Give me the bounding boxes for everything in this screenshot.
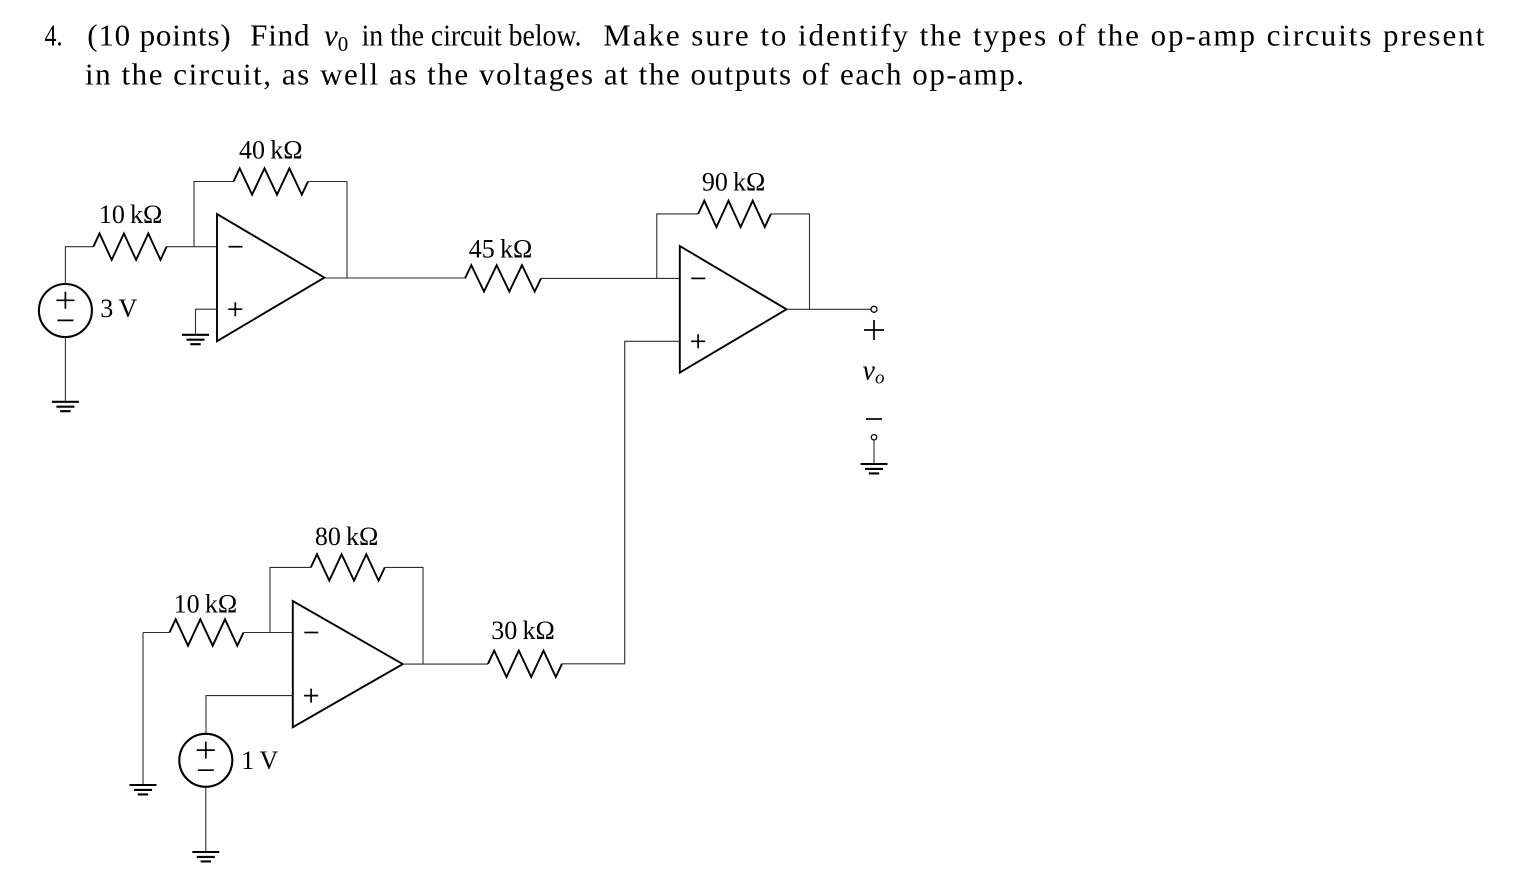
- wire node B up to R4: [657, 214, 698, 279]
- wire R1 to U1 inverting input: [167, 246, 217, 248]
- wire left leg down to ground: [142, 633, 144, 786]
- wire R5 to U3 inverting input: [244, 632, 293, 634]
- wire V1 top to R1: [65, 247, 93, 284]
- svg-text:90 kΩ: 90 kΩ: [702, 167, 766, 196]
- wire node A up to R2: [194, 182, 234, 247]
- svg-text:3 V: 3 V: [100, 294, 137, 323]
- svg-text:30 kΩ: 30 kΩ: [491, 616, 555, 645]
- wire V2 bottom to ground: [205, 787, 207, 852]
- op-amp U1: [217, 214, 324, 341]
- resistor R7 30k: [488, 651, 562, 677]
- plus sign at output: [864, 320, 884, 340]
- svg-text:in the circuit, as well as the: in the circuit, as well as the voltages …: [85, 57, 1024, 92]
- wire V1 bottom to ground: [64, 337, 66, 402]
- wire U2 output to terminal: [787, 308, 872, 310]
- wire U1 noninverting input to ground: [196, 309, 218, 335]
- wire R7 up to U2 noninverting input: [562, 341, 680, 664]
- svg-text:Make sure to identify the type: Make sure to identify the types of the o…: [603, 18, 1484, 53]
- svg-text:v0: v0: [324, 18, 348, 57]
- svg-text:80 kΩ: 80 kΩ: [315, 522, 379, 551]
- ground bottom left: [130, 785, 157, 794]
- svg-text:(10 points): (10 points): [87, 18, 231, 53]
- U3 plus sign: [304, 689, 318, 703]
- voltage source V1 3V: [39, 284, 92, 337]
- output terminal upper: [871, 306, 877, 312]
- svg-text:10 kΩ: 10 kΩ: [99, 200, 163, 229]
- U1 minus sign: [229, 246, 243, 248]
- wire left leg to R5: [143, 632, 170, 634]
- problem statement line 1: [45, 18, 1485, 57]
- wire U3 output to R7: [403, 663, 488, 665]
- svg-text:Find: Find: [250, 18, 310, 53]
- wire R6 to U3 output: [385, 567, 423, 664]
- minus sign at output: [866, 418, 882, 420]
- U1 plus sign: [228, 302, 242, 316]
- ground at U1 + input: [182, 335, 209, 344]
- U2 plus sign: [691, 334, 705, 348]
- wire lower terminal to ground: [873, 440, 875, 464]
- svg-text:40 kΩ: 40 kΩ: [239, 135, 303, 164]
- op-amp U2: [680, 246, 787, 373]
- wire U3 noninverting input to V2: [206, 696, 293, 734]
- svg-text:45 kΩ: 45 kΩ: [469, 235, 533, 264]
- resistor R3 45k: [465, 265, 541, 291]
- svg-text:vo: vo: [863, 356, 885, 389]
- svg-text:4.: 4.: [45, 18, 63, 53]
- ground below V2: [192, 852, 219, 861]
- voltage source V2 1V: [179, 734, 232, 787]
- wire R2 to U1 output: [308, 182, 347, 279]
- U3 minus sign: [304, 632, 318, 634]
- resistor R5 10k: [170, 619, 244, 645]
- svg-text:1 V: 1 V: [241, 746, 278, 775]
- ground at output: [861, 464, 888, 473]
- svg-text:in the circuit below.: in the circuit below.: [362, 18, 582, 53]
- svg-text:10 kΩ: 10 kΩ: [174, 589, 238, 618]
- resistor R4 90k feedback: [698, 201, 771, 227]
- wire node C up to R6: [270, 567, 311, 632]
- wire R3 to U2 inverting input: [541, 277, 680, 279]
- resistor R1 10k: [93, 234, 166, 260]
- wire U1 output to R3: [324, 277, 465, 279]
- wire R4 to U2 output: [771, 214, 810, 309]
- op-amp U3: [293, 601, 403, 727]
- ground below V1: [52, 402, 79, 411]
- resistor R6 80k feedback: [311, 554, 385, 580]
- resistor R2 40k feedback: [234, 168, 309, 194]
- U2 minus sign: [691, 277, 705, 279]
- output terminal lower: [871, 435, 876, 440]
